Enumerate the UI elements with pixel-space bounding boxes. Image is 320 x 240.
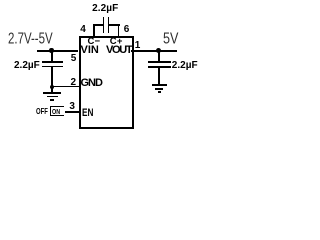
- label OFF: [36, 106, 48, 116]
- wire C2 bottom lead: [51, 67, 53, 87]
- label VIN: [81, 44, 99, 56]
- wire GND pin2 horizontal: [52, 86, 79, 88]
- label C2 value 2.2uF: [14, 60, 40, 71]
- wire C3 top lead: [158, 50, 160, 62]
- wire C2 top lead: [51, 50, 53, 61]
- label ON: [52, 107, 60, 116]
- label C1 value 2.2uF: [92, 3, 118, 14]
- node GND junction: [50, 85, 54, 89]
- capacitor C2 top plate: [42, 61, 63, 63]
- wire pin4 lead vertical: [93, 24, 95, 36]
- label GND: [81, 77, 102, 89]
- capacitor C1 left plate: [103, 17, 105, 33]
- wire pin6 lead vertical: [118, 24, 120, 36]
- label VOUT: [106, 44, 131, 56]
- ground GND1 bar1: [43, 92, 61, 94]
- op-amp U1 (charge-pump IC body): [79, 36, 134, 129]
- wire pin4 to C1 left plate: [93, 24, 104, 26]
- pin 5 number: [71, 53, 77, 64]
- pin 3 number: [69, 101, 75, 112]
- capacitor C1 right plate: [108, 17, 110, 33]
- ground GND1 bar3: [50, 99, 55, 101]
- capacitor C3 bottom plate: [148, 66, 171, 68]
- wire EN pin3: [65, 111, 80, 113]
- capacitor C3 top plate: [148, 61, 171, 63]
- ground GND1 bar2: [47, 96, 58, 98]
- pin 6 number: [124, 24, 130, 35]
- ground GND2 bar2: [155, 88, 163, 90]
- wire C3 bottom lead: [158, 67, 160, 84]
- ground GND2 bar1: [152, 84, 167, 86]
- pin 4 number: [80, 24, 86, 35]
- label C3 value 2.2uF: [172, 60, 198, 71]
- pin 1 number: [135, 40, 141, 51]
- node input junction: [49, 48, 53, 52]
- capacitor C2 bottom plate: [42, 66, 63, 68]
- label EN: [82, 107, 93, 119]
- ground GND2 bar3: [158, 91, 162, 93]
- wire output rail: [131, 50, 177, 52]
- label C+: [110, 36, 123, 47]
- ground GND1 stub: [51, 87, 53, 93]
- label output voltage 5V: [163, 29, 178, 47]
- label C-: [88, 36, 101, 47]
- node output junction: [156, 48, 161, 53]
- wire C1 right plate to pin6: [109, 24, 120, 26]
- pin 2 number: [71, 77, 77, 88]
- label input voltage 2.7V--5V: [8, 29, 53, 47]
- switch ON box: [50, 106, 64, 116]
- wire input rail: [37, 50, 78, 52]
